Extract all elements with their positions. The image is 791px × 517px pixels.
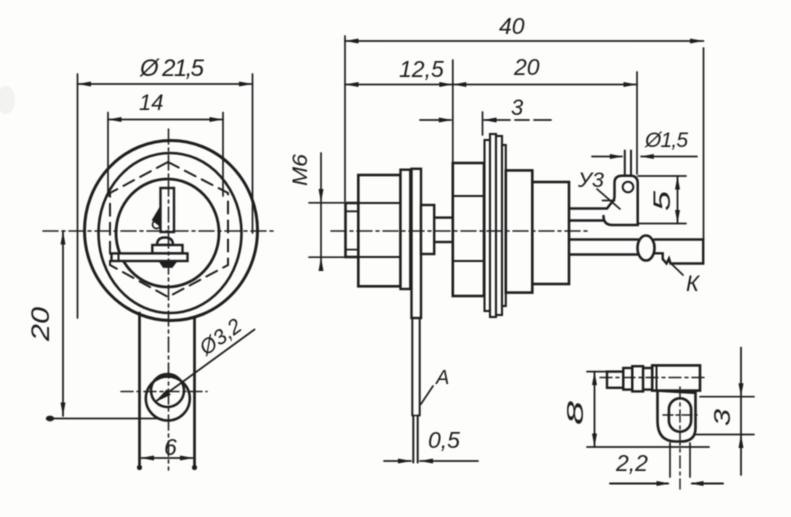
rib line bottom: [453, 260, 484, 262]
svg-text:20: 20: [513, 54, 540, 80]
tab step: [412, 415, 419, 417]
svg-text:6: 6: [164, 434, 177, 460]
cathode wire bottom: [569, 253, 638, 255]
dim 8 line: [594, 372, 596, 447]
svg-text:2,2: 2,2: [615, 450, 648, 476]
gate lead wire bottom: [569, 219, 605, 221]
neck ring 2: [434, 218, 453, 242]
end cap: [532, 182, 569, 284]
dim 14 left extension: [107, 113, 109, 197]
dim 20 line (middle): [453, 84, 637, 86]
svg-text:У3: У3: [577, 169, 604, 192]
svg-text:К: К: [686, 271, 700, 296]
contact dome: [157, 238, 173, 246]
vertical centerline: [168, 129, 170, 470]
hex body: [358, 175, 400, 286]
rib line top: [453, 195, 484, 197]
stud thread line bottom: [346, 249, 359, 251]
cathode wire top: [569, 238, 638, 240]
crimp strip 4: [502, 145, 506, 306]
wire stub lines: [624, 151, 626, 177]
crimp strip 3: [496, 136, 502, 315]
dim 6 line: [142, 457, 193, 459]
glass bead: [638, 236, 655, 261]
dim 40 right extension: [703, 48, 705, 240]
svg-text:40: 40: [499, 13, 525, 39]
neck ring 1: [421, 205, 434, 254]
svg-text:20: 20: [27, 307, 55, 342]
case outer circle: [85, 141, 258, 321]
hex facet top: [358, 202, 400, 204]
crimp strip 2: [490, 134, 496, 317]
anode tab edge-on lower: [412, 416, 414, 463]
dim 3 line (detail): [740, 348, 742, 476]
horizontal centerline: [43, 230, 273, 232]
dim D1.5 left arrow: [592, 156, 622, 158]
threaded stud: [346, 203, 359, 257]
dim D21.5 line: [78, 83, 253, 85]
axis centerline: [331, 230, 588, 232]
anode tab edge-on upper: [411, 318, 413, 416]
terminal barrel: [652, 365, 700, 390]
inner lead bar: [161, 188, 175, 232]
dim 3 extension: [482, 112, 484, 135]
dim 0.5 left line: [384, 460, 411, 462]
dim 3 left arrow: [420, 119, 451, 121]
dim 3 bottom extension (detail): [696, 434, 755, 436]
flange plate: [412, 169, 422, 318]
barrel axis centerline: [600, 377, 707, 379]
svg-text:12,5: 12,5: [399, 56, 444, 82]
svg-text:8: 8: [562, 401, 588, 425]
hole centerline: [121, 391, 207, 393]
svg-text:М6: М6: [289, 154, 312, 186]
cathode wire end top: [655, 238, 704, 240]
crystal wedge: [153, 207, 161, 227]
cap circle: [116, 179, 219, 287]
svg-text:А: А: [435, 367, 449, 389]
ext line 12.5/20 shared going down: [452, 60, 454, 163]
dim 2.2 left arrow: [610, 483, 668, 485]
cathode wire end outline: [655, 240, 704, 264]
base stem (dark): [160, 261, 177, 267]
dim 20 vertical line: [62, 231, 64, 416]
mounting tab right edge: [193, 317, 196, 467]
hex nut (dashed): [110, 162, 228, 297]
dim 8 top extension: [587, 371, 609, 373]
crimp box 3: [632, 366, 643, 391]
baseline: [587, 446, 709, 448]
plate end cap: [118, 253, 120, 261]
scan smudge top-left: [0, 86, 15, 114]
dim 40 left extension: [344, 36, 346, 201]
slot horizontal centerline: [663, 414, 697, 416]
svg-text:0,5: 0,5: [428, 427, 460, 453]
dim 20 bottom extension: [49, 418, 157, 420]
washer plate: [401, 170, 411, 289]
gate terminal hole: [623, 182, 634, 193]
svg-text:5: 5: [649, 190, 676, 211]
crimp box 1: [607, 372, 623, 388]
dim 3 right arrow with tail: [484, 119, 551, 121]
gate terminal lug: [604, 176, 638, 225]
dim 40 line: [345, 40, 704, 42]
dim 14 right extension: [222, 113, 224, 197]
dim 3 top extension (detail): [700, 396, 754, 398]
dim 2.2 left extension: [669, 443, 671, 477]
dim M6 line: [320, 153, 322, 266]
gate lead wire top: [569, 207, 607, 209]
tab hole: [151, 374, 184, 407]
dim 5 top extension: [638, 175, 686, 177]
svg-text:3: 3: [709, 409, 735, 426]
terminal pouch: [658, 391, 696, 442]
label K leader: [669, 262, 683, 276]
tab end dots: [137, 465, 142, 470]
dim D21.5 left extension: [77, 74, 79, 318]
dim 20 right extension: [636, 72, 638, 174]
crimp box 4: [643, 368, 652, 390]
barrel division line: [656, 365, 658, 390]
crimp box 2: [623, 368, 632, 390]
crystal loop: [153, 221, 161, 229]
dim 5 line: [677, 176, 679, 224]
dim M6 extension top: [309, 202, 346, 204]
pedestal box: [152, 245, 182, 253]
dim M6 extension bottom: [309, 256, 346, 258]
tab hole outer circle: [146, 377, 190, 421]
dim 14 line: [108, 119, 223, 121]
svg-text:14: 14: [139, 90, 163, 115]
hole leader line: [157, 330, 255, 401]
mounting tab left edge: [138, 313, 141, 467]
dim 5 bottom extension: [638, 223, 686, 225]
crimp strip 1: [485, 140, 491, 311]
dim D1.5 right arrow: [641, 156, 697, 158]
dim 2.2 right extension: [689, 443, 691, 477]
dim D21.5 right extension: [252, 74, 254, 233]
svg-text:Ø 21,5: Ø 21,5: [139, 55, 205, 82]
case cylinder: [506, 170, 533, 292]
extension end dot: [46, 416, 54, 422]
stud thread line top: [346, 210, 359, 212]
ribbed ring: [453, 163, 484, 296]
dim 2.2 right arrow: [692, 483, 723, 485]
dim 12.5 line: [345, 84, 453, 86]
label A leader: [421, 386, 433, 404]
label UZ leader: [597, 189, 620, 209]
hex facet bottom: [358, 256, 400, 258]
flange inner circle: [99, 153, 242, 313]
lug inner edge: [603, 200, 615, 202]
svg-text:3: 3: [511, 95, 524, 120]
terminal slot: [669, 398, 691, 431]
dim 0.5 right line: [420, 460, 478, 462]
base plate bar: [112, 253, 188, 261]
svg-text:Ø1,5: Ø1,5: [644, 129, 688, 152]
slot vertical centerline: [679, 387, 681, 489]
